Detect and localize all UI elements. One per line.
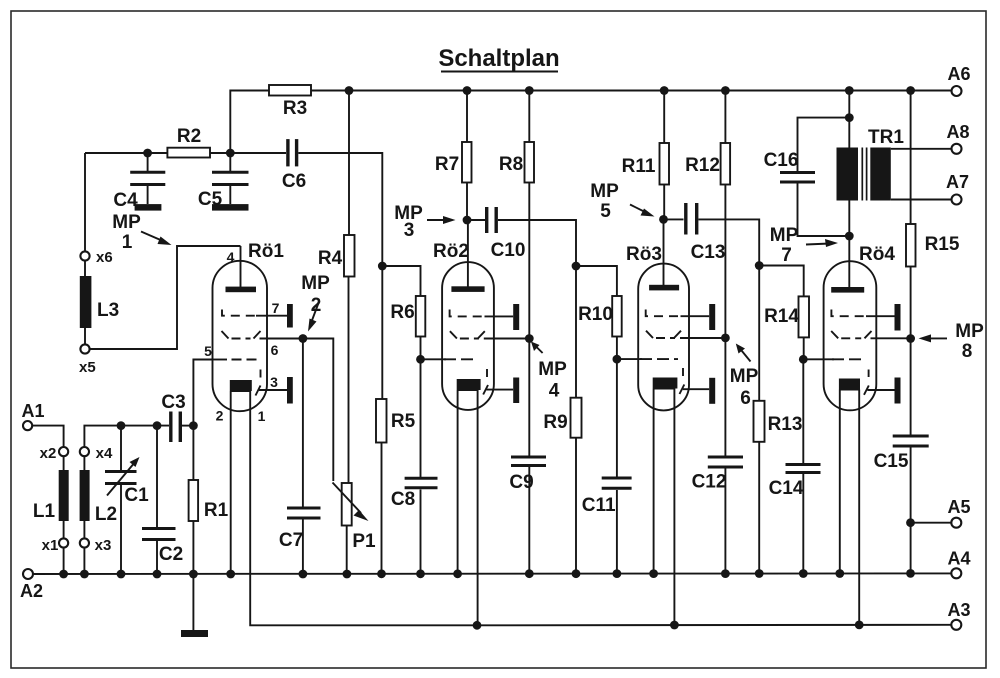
wire Ro2 pin1 lead to A3 line [477,390,479,625]
node R10/C11 junction [613,355,622,364]
inductor L2 [80,470,90,521]
wire R4 top lead [348,91,350,236]
svg-text:C5: C5 [198,189,223,210]
node MP2 junction [299,334,308,343]
wire C2 top lead [156,426,158,527]
svg-text:C1: C1 [124,485,149,506]
node MP4 junction [525,334,534,343]
pin bar 3 of Ro2 [513,378,519,404]
grid g5 of Ro3 (dashed) [640,358,678,360]
capacitor C5 [212,171,249,174]
capacitor C16 [780,171,815,174]
pin 3 slant of Ro3 [680,385,685,395]
tick above pin3 of Ro4 [868,370,870,378]
terminal A4 [951,568,961,578]
arrow MP7 [806,244,830,245]
svg-text:MP: MP [955,321,984,342]
wire R10 node down to C11 [616,359,618,476]
inductor L3 [80,276,92,328]
capacitor C4 [130,171,165,174]
wire Ro4 pin1 lead to A3 line [858,390,860,626]
tube Ro2 envelope [442,262,494,410]
resistor R3 [269,85,311,96]
chassis bar of C5 [212,204,249,211]
wire C1 bottom lead to bus [120,485,122,574]
svg-text:Rö2: Rö2 [433,241,469,262]
wire R6 node down to C8 [420,359,422,477]
node rail/R15 junction [906,86,915,95]
wire C8 bottom lead to bus [420,490,422,575]
svg-text:C3: C3 [161,392,185,413]
wire Ro4 pin2 lead to bus [839,390,841,575]
node R2/C5/R3 junction [226,149,235,158]
wire TR1 secondary bottom to A7 [891,199,952,201]
wire x3 to bus [83,548,85,574]
capacitor C3 [169,412,172,443]
wire L2 top lead [83,456,85,470]
svg-text:A2: A2 [20,581,43,601]
wire TR1 secondary top to A8 [891,148,952,150]
wire R2 right to C6 [210,152,286,154]
tick above pin3 of Ro2 [486,369,488,377]
wire x5 to Ro1 anode (MP1 corner) [90,246,241,349]
wire R12 top lead [724,91,726,144]
svg-text:R6: R6 [390,302,414,323]
svg-text:C4: C4 [113,190,138,211]
node C6/R6/R5 junction [378,262,387,271]
capacitor C14 [786,463,821,466]
svg-text:C12: C12 [692,472,727,493]
svg-text:x2: x2 [40,445,57,462]
wire Ro4 pin3 lead [868,389,895,391]
wire MP6 node down to C12 [724,338,726,456]
node bus Ro2 pin2 [453,569,462,578]
arrow MP2 [311,303,319,323]
wire R7 bottom lead to MP3 node [466,183,468,221]
wire ground bus A2 to A4 [33,572,951,575]
wire C6 right to R5 branch [298,153,382,266]
node bus C7 [299,570,308,579]
potentiometer P1 wiper arrow [333,483,362,514]
svg-text:C11: C11 [582,495,616,516]
resistor R5 [376,399,387,443]
wire R9 top lead [575,266,577,398]
node bus x1 [59,570,68,579]
resistor R11 [660,143,670,185]
node bus C11 [613,569,622,578]
node bus C8 [416,569,425,578]
svg-text:R12: R12 [685,155,720,176]
node bus P1 [343,570,352,579]
arrow of C1 [107,465,133,496]
node C16/TR1 junction [845,113,854,122]
node C1 junction [117,421,126,430]
svg-text:x6: x6 [96,249,113,266]
svg-text:3: 3 [270,374,278,390]
svg-text:1: 1 [122,232,133,253]
wire x6 to L3 [84,261,86,276]
tick above pin3 of Ro3 [682,368,684,376]
node rail/TR1 junction [845,86,854,95]
wire left node row y=153 [85,152,167,154]
svg-text:C14: C14 [769,478,804,499]
wire C12 bottom lead to bus [724,469,726,575]
svg-text:MP: MP [301,273,330,294]
node MP3 junction [463,216,472,225]
svg-text:L1: L1 [33,501,56,522]
wire R4 bottom to P1 [348,277,350,484]
wire Ro1 pin1 lead to A3 line [250,391,477,625]
capacitor C15 [893,435,929,438]
svg-text:MP: MP [590,181,619,202]
svg-text:x5: x5 [79,359,96,376]
resistor R8 [525,142,535,183]
svg-text:C10: C10 [491,240,526,261]
tube Ro1 envelope [213,261,268,411]
svg-text:A1: A1 [21,401,44,421]
terminal x2 [59,447,68,456]
node bus R1/ground [189,570,198,579]
wire Ro2 pin6 lead to MP4 node [484,338,530,340]
node A3 line Ro4 pin1 [855,621,864,630]
node rail/R12 junction [721,86,730,95]
terminal x5 [80,344,89,353]
svg-text:C16: C16 [764,150,799,171]
wire Ro2 pin7 lead [485,315,514,317]
variable capacitor C1 [105,470,137,473]
svg-text:x4: x4 [96,445,113,462]
wire R13 lead from node [758,266,760,401]
svg-text:MP: MP [538,359,567,380]
svg-text:R8: R8 [499,154,523,175]
node R13/R14 junction [755,261,764,270]
wire C2 bottom lead to bus [156,541,158,574]
wire Ro1 pin7 lead [256,315,287,317]
terminal x4 [80,447,89,456]
terminal A7 [952,195,962,205]
node bus R5 [377,569,386,578]
tube Ro4 envelope [824,261,877,410]
wire P1 bottom lead to bus [346,526,348,575]
node bus C2 [153,570,162,579]
wire R11 top lead [663,91,665,144]
resistor R14 [799,296,810,337]
svg-text:P1: P1 [352,531,376,552]
svg-text:L2: L2 [95,504,117,525]
wire R8 top lead [528,91,530,143]
svg-text:C13: C13 [691,242,726,263]
potentiometer P1 body [342,483,352,526]
wire MP2 to P1 wiper [303,339,333,482]
terminal A6 [952,86,962,96]
wire R10 bottom node to Ro3 grid [617,358,642,360]
wire R14 top branch [759,266,804,297]
node rail/R7 junction [463,86,472,95]
wire x1 to bus [63,548,65,574]
node A3 line Ro3 pin1 [670,621,679,630]
wire C3 right to R1 node [182,425,193,427]
wire MP3 to C10 [467,219,485,221]
terminal x1 [59,538,68,547]
capacitor C11 [602,477,632,480]
tube Ro3 envelope [638,264,689,411]
svg-text:Rö1: Rö1 [248,241,284,262]
svg-text:L3: L3 [97,300,119,321]
wire Ro3 pin3 lead [683,388,709,390]
node C2 junction [153,421,162,430]
svg-text:Rö4: Rö4 [859,244,895,265]
node bus C9 [525,569,534,578]
wire Ro4 anode lead [848,236,850,288]
node MP8 junction [906,334,915,343]
svg-text:R14: R14 [764,306,799,327]
node A5 junction [906,518,915,527]
wire Ro2 pin2 lead to bus [457,390,459,574]
node bus R15/A4 [906,569,915,578]
wire L3 to x5 [84,328,86,344]
svg-text:A7: A7 [946,172,969,192]
svg-text:7: 7 [272,300,280,316]
capacitor C9 [511,456,546,459]
arrow MP6 [742,351,751,362]
wire C16 bottom lead to MP7 node [798,184,850,237]
wire C13 right to R14/R13 branch [699,219,760,265]
svg-text:TR1: TR1 [868,127,904,148]
wire R14 node to Ro4 grid [803,358,834,360]
svg-text:R13: R13 [768,414,803,435]
svg-text:x1: x1 [42,537,59,554]
svg-text:R10: R10 [578,304,613,325]
svg-text:A5: A5 [947,497,970,517]
grid g5 of Ro4 (dashed) [832,358,866,360]
svg-text:MP: MP [112,212,141,233]
anode bar of Ro1 [226,287,257,293]
resistor R13 [754,401,765,442]
node rail/R8 junction [525,86,534,95]
terminal A3 [951,620,961,630]
node bus x3 [80,570,89,579]
svg-text:6: 6 [740,388,751,409]
wire L1 bottom to x1 [63,521,65,539]
cathode box bottom of Ro2 [458,389,478,391]
cathode of Ro1 [230,380,252,391]
wire MP4 node down to C9 [528,339,530,456]
resistor R9 [571,398,582,438]
wire R7 top lead [466,91,468,143]
capacitor C12 [708,456,743,459]
svg-text:3: 3 [404,220,415,241]
wire Ro2 pin3 lead [487,389,514,391]
svg-text:A8: A8 [946,122,969,142]
pin bar 3 of Ro1 [287,377,293,404]
arrow MP3 [427,219,447,221]
resistor R10 [612,296,622,337]
node R9/R10 junction [572,262,581,271]
arrow MP8 [927,337,947,339]
terminal A1 [23,421,32,430]
svg-text:x3: x3 [95,537,112,554]
wire to A5 [911,522,952,524]
capacitor C4 chassis lead [147,186,149,204]
svg-text:7: 7 [781,245,792,266]
wire C14 bottom lead to bus [802,474,804,574]
capacitor C5 lead [229,153,231,171]
svg-text:R1: R1 [204,500,229,521]
terminal A8 [952,144,962,154]
wire L2 bottom to x3 [83,521,85,539]
grid g5 of Ro2 (dashed) [444,358,474,360]
wire R13 bottom lead to bus [758,442,760,574]
svg-text:R11: R11 [622,156,656,177]
svg-text:C6: C6 [282,171,306,192]
wire R6 bottom lead [420,337,422,360]
wire Ro4 pin7 lead [866,315,895,317]
title underline [441,71,558,73]
arrow MP5 [630,205,646,213]
capacitor C10 [485,207,488,233]
wire Ro3 anode lead [663,219,665,287]
wire C15 bottom lead to A5 node and bus [910,448,912,575]
svg-text:A6: A6 [947,64,970,84]
pin 3 slant of Ro4 [864,386,869,395]
svg-text:R3: R3 [283,98,307,119]
node R14/C14 junction [799,355,808,364]
node R6/C8 junction [416,355,425,364]
wire Ro4 pin6 lead to MP8 node [871,337,911,339]
wire C16 top lead [798,118,850,171]
wire C11 bottom lead to bus [616,490,618,574]
node bus Ro4 pin2 [835,569,844,578]
svg-text:8: 8 [962,341,973,362]
terminal A2 [23,569,33,579]
wire R14 node down to C14 [802,359,804,463]
wire Ro2 anode lead [467,220,469,287]
capacitor C6 [286,139,289,166]
terminal x6 [80,251,89,260]
grid g7 of Ro3 (dashed) [646,310,682,317]
node MP7 junction [845,232,854,241]
wire R8 bottom lead to MP4 node [528,183,530,339]
capacitor C2 [142,527,176,530]
wire R6 top branch [382,266,420,296]
svg-text:4: 4 [227,249,235,265]
terminal x3 [80,538,89,547]
node bus R9 [572,569,581,578]
svg-text:5: 5 [204,343,212,359]
svg-text:C8: C8 [391,489,415,510]
resistor R4 [344,235,355,277]
svg-text:1: 1 [258,408,266,424]
svg-text:A4: A4 [947,549,970,569]
anode bar of Ro4 [831,287,864,293]
heater of Ro2 (dashes and ticks) [450,331,457,338]
wire MP5 to C13 [664,218,684,220]
svg-text:4: 4 [549,381,560,402]
wire R6 bottom node to Ro2 grid [421,358,447,360]
svg-text:2: 2 [216,408,224,424]
capacitor C8 [405,477,438,480]
wire A3 line right section [477,624,951,627]
chassis bar of C4 [135,204,162,211]
node C4 junction [143,149,152,158]
svg-text:MP: MP [730,366,759,387]
pin 3 slant of Ro1 [256,386,261,396]
node bus R13 [755,569,764,578]
anode bar of Ro3 [649,285,679,291]
node A3 line Ro2 pin1 [473,621,482,630]
wire R10 top branch [576,266,617,296]
svg-text:5: 5 [600,201,611,222]
wire Ro1 pin5 lead down to C3/R1 node [193,360,212,426]
wire C7 top lead [302,339,304,507]
wire C7 bottom lead to bus [302,520,304,575]
wire Ro3 pin2 lead to bus [653,389,655,575]
wire top rail from R3 to A6 [311,90,952,92]
wire A1 to x2 [32,426,63,447]
capacitor C13 [684,203,687,235]
wire R1 top lead [192,426,194,480]
transformer TR1 core lines [861,148,863,201]
wire x6 upper lead [84,153,86,251]
svg-text:C15: C15 [874,451,909,472]
svg-text:A3: A3 [947,600,970,620]
wire Ro1 pin2 lead to ground bus [230,391,232,574]
wire C1 top lead [120,426,122,470]
pin bar 3 of Ro3 [709,378,715,404]
arrow MP1 [141,232,164,242]
resistor R2 [167,148,210,158]
cathode of Ro3 [653,378,678,389]
wire R11 bottom lead to MP5 node [663,185,665,220]
svg-text:R7: R7 [435,154,459,175]
wire Ro1 pin3 lead [259,389,287,391]
svg-text:C2: C2 [159,544,183,565]
wire R3 left lead down to R2/C5 node [230,91,269,154]
capacitor C7 [287,507,321,510]
grid g7 of Ro4 (dashed) [831,310,867,317]
grid g5 of Ro1 (dashed) [213,359,228,361]
pin bar 7 of Ro4 [895,304,901,331]
wire Ro1 pin6 lead to MP2 node [260,338,303,340]
capacitor C4 lead [147,153,149,171]
node C3/R1/g5 junction [189,421,198,430]
svg-text:R4: R4 [318,248,343,269]
svg-text:R9: R9 [543,412,567,433]
heater of Ro1 (dashes and ticks) [222,331,229,339]
svg-text:R15: R15 [925,234,960,255]
svg-text:Rö3: Rö3 [626,244,662,265]
wire C10 right to R10/R9 branch [498,220,576,266]
wire R15 bottom lead to MP8 node [910,267,912,339]
wire x4 up to antenna node row [84,426,169,447]
resistor R1 [189,480,199,521]
wire R9 bottom lead to bus [575,438,577,574]
node MP5 junction [659,215,668,224]
terminal A5 [951,518,961,528]
cathode box bottom of Ro3 [654,388,675,390]
resistor R7 [462,142,472,183]
wire R5 top lead [381,266,383,399]
node MP6 junction [721,334,730,343]
grid g7 of Ro1 (dashed) [222,310,258,316]
wire R15 top lead [910,91,912,225]
transformer TR1 secondary winding [870,148,891,201]
wire R1 bottom lead to bus [192,521,194,574]
svg-text:6: 6 [271,342,279,358]
tick above pin3 of Ro1 [260,370,262,378]
node rail/R4 junction [345,86,354,95]
node bus C1 [117,570,126,579]
